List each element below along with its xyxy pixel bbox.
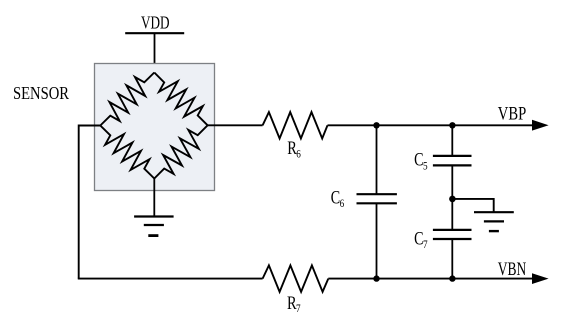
wire VDD to bridge top node — [154, 33, 156, 74]
junction dot top rail C5 — [449, 122, 455, 128]
wire node A to right ground — [452, 199, 493, 212]
capacitor C7 — [433, 229, 472, 231]
arrow VBN — [532, 273, 549, 284]
capacitor C5 — [433, 155, 472, 157]
bridge resistor top-left arm — [100, 73, 154, 126]
wire bottom rail to VBN — [328, 278, 533, 280]
svg-text:6: 6 — [296, 148, 301, 160]
wire top rail to VBP — [328, 124, 534, 126]
sensor body box — [95, 64, 215, 191]
svg-text:5: 5 — [423, 160, 428, 172]
bridge resistor bottom-left arm — [100, 126, 154, 179]
junction dot top rail C6 — [373, 122, 379, 128]
wire top rail to C6 — [376, 125, 378, 194]
wire top rail to C5 — [451, 125, 453, 156]
svg-text:VBN: VBN — [498, 260, 527, 280]
arrow VBP — [532, 120, 549, 131]
junction dot bottom rail C7 — [449, 275, 455, 281]
svg-text:7: 7 — [423, 239, 428, 251]
ground symbol under bridge — [134, 215, 174, 217]
svg-text:7: 7 — [296, 303, 301, 315]
bridge resistor top-right arm — [154, 73, 207, 126]
wire bridge bottom node to ground — [153, 179, 155, 217]
wire bridge right node to R6 — [208, 124, 263, 126]
wire bridge left node to bottom rail — [79, 126, 101, 279]
svg-text:VBP: VBP — [498, 104, 527, 124]
resistor R6 — [263, 112, 328, 138]
svg-text:6: 6 — [340, 198, 345, 210]
junction dot bottom rail C6 — [373, 275, 379, 281]
wire bottom rail left segment — [78, 278, 263, 280]
wire C6 to bottom rail — [376, 203, 378, 278]
junction dot node A — [449, 196, 456, 203]
wire C7 to bottom rail — [451, 239, 453, 279]
capacitor C6 — [357, 193, 397, 195]
ground symbol right — [474, 211, 514, 213]
power symbol VDD bar — [125, 32, 184, 34]
svg-text:VDD: VDD — [141, 13, 170, 33]
bridge resistor bottom-right arm — [154, 125, 207, 178]
svg-text:SENSOR: SENSOR — [13, 83, 69, 103]
wire C5 to node A — [451, 165, 453, 230]
resistor R7 — [263, 265, 329, 291]
